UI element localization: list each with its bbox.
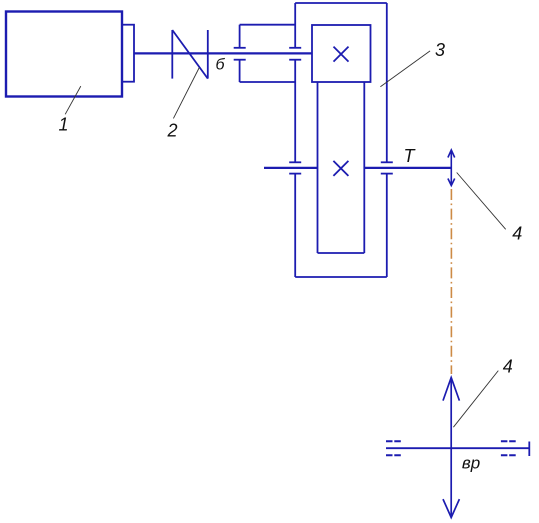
gear cross X1 (input gear) bbox=[334, 47, 349, 62]
plain bearing left (dashes) bbox=[386, 441, 401, 455]
lower vertical shaft with arrows (item 4 chain) bbox=[443, 378, 459, 518]
coupling 2 (belt/elastic coupling symbol) bbox=[172, 30, 208, 79]
bearing block on input shaft (bracket with T-caps) bbox=[234, 25, 296, 82]
bearing caps on housing right wall, output shaft bbox=[381, 162, 393, 173]
wire output shaft left stub bbox=[264, 167, 318, 169]
motor shaft flange bbox=[122, 25, 134, 82]
svg-text:4: 4 bbox=[512, 224, 522, 244]
wire output shaft right (to sprocket) bbox=[364, 167, 451, 169]
bearing caps on housing left wall, output shaft bbox=[289, 162, 301, 173]
svg-text:4: 4 bbox=[503, 357, 513, 377]
svg-text:2: 2 bbox=[166, 121, 177, 141]
leader line to label 2 bbox=[173, 68, 199, 119]
plain bearing right (dashes) bbox=[501, 441, 517, 455]
svg-text:вр: вр bbox=[462, 454, 480, 473]
bearing caps on housing left wall, input shaft bbox=[289, 48, 301, 60]
chain centerline (dash-dot, orange) bbox=[450, 189, 452, 374]
gear cross X2 (output gear) bbox=[333, 161, 348, 176]
wire input shaft (motor to gearbox) bbox=[134, 52, 312, 54]
leader line to upper label 4 bbox=[457, 173, 506, 230]
svg-text:б: б bbox=[216, 57, 226, 74]
svg-text:T: T bbox=[404, 146, 417, 166]
svg-text:3: 3 bbox=[435, 40, 445, 60]
wire bottom horizontal shaft (вр) bbox=[386, 447, 529, 449]
leader line to label 1 bbox=[65, 86, 81, 114]
motor M1 (electric motor, item 1) bbox=[6, 12, 122, 97]
double arrow at output shaft end (chain drive item 4) bbox=[448, 150, 455, 186]
leader line to label 3 bbox=[380, 51, 430, 87]
gearbox housing (item 3) bbox=[295, 3, 387, 277]
worm gear box (square on input shaft) bbox=[312, 25, 371, 82]
svg-text:1: 1 bbox=[58, 115, 68, 135]
end cap of bottom shaft bbox=[528, 442, 530, 457]
worm shaft column (vertical rectangle) bbox=[318, 82, 365, 253]
leader line to lower label 4 bbox=[453, 371, 498, 428]
